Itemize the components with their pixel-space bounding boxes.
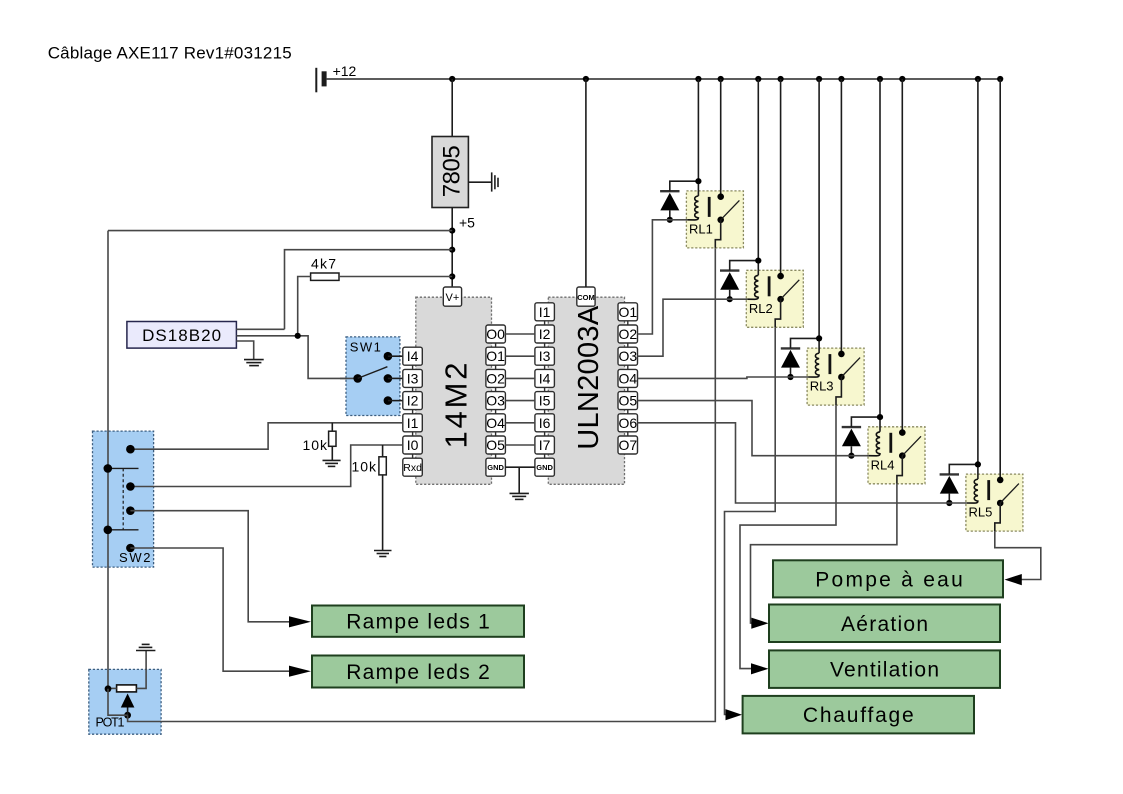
svg-text:I1: I1 xyxy=(539,304,551,320)
wire +5 left rail vertical (to SW2 and POT1) xyxy=(107,231,109,689)
diode D3 (flyback) xyxy=(781,338,819,377)
wire ULN O5 to RL4 coil xyxy=(638,401,870,456)
SW2 mechanical link (dashed) xyxy=(122,468,124,529)
RL5 coil xyxy=(967,479,978,503)
RL2 coil xyxy=(747,275,758,299)
14M2 output pins O0-O5 xyxy=(486,325,506,458)
svg-text:I4: I4 xyxy=(407,348,419,364)
wire +12 rail to COM xyxy=(585,79,587,287)
RL1 switch lever and contacts xyxy=(717,193,739,223)
svg-text:SW1: SW1 xyxy=(350,340,381,355)
svg-text:I2: I2 xyxy=(407,393,419,409)
svg-text:O4: O4 xyxy=(618,370,637,386)
POT1 terminal junction dots xyxy=(105,685,131,718)
RL3 switch lever and contacts xyxy=(838,351,860,381)
POT1 track body xyxy=(117,685,137,692)
load box Aeration xyxy=(769,605,1000,643)
load box Rampe leds 2 xyxy=(312,656,524,688)
svg-text:I3: I3 xyxy=(539,348,551,364)
svg-text:O4: O4 xyxy=(486,415,505,431)
svg-text:COM: COM xyxy=(577,293,595,302)
wire DS18B20 Vdd pin to +5 xyxy=(236,328,284,330)
relay RL5 xyxy=(966,474,1023,531)
wire DS18B20 gnd pin xyxy=(236,341,253,360)
wire +12 rail to RL1 switch contact xyxy=(720,79,722,197)
wire POT1 wiper long run to RL1 common xyxy=(128,248,716,722)
wire RL4 common to Aeration xyxy=(751,484,897,623)
wire +12 rail to RL2 switch contact xyxy=(780,79,782,276)
wire SW1 to I4 xyxy=(388,355,403,357)
RL3 core bar xyxy=(829,354,832,374)
RL5 core bar xyxy=(987,480,990,500)
svg-text:O1: O1 xyxy=(618,304,637,320)
svg-text:10k: 10k xyxy=(303,437,329,453)
ULN2003A pin COM xyxy=(577,287,595,306)
svg-text:GND: GND xyxy=(536,463,553,472)
wire DS18B20 data pin to SW1 common xyxy=(236,336,357,379)
darlington driver ULN2003A U2 xyxy=(548,297,624,484)
ground symbol below ICs xyxy=(510,493,529,499)
wire +12 rail to RL1 coil xyxy=(697,79,699,196)
wire +12 rail to RL3 coil xyxy=(818,79,820,353)
ULN2003A output pins O1-O7 xyxy=(618,303,638,454)
node +5 junction dots xyxy=(449,228,455,280)
SW1 contact dots xyxy=(353,352,392,405)
wire +12 rail to RL3 switch contact xyxy=(840,79,842,354)
svg-text:I0: I0 xyxy=(407,437,419,453)
RL4 core bar xyxy=(889,433,892,453)
junction dots on +12 rail xyxy=(449,76,1003,82)
svg-text:7805: 7805 xyxy=(439,145,466,197)
load box Chauffage xyxy=(743,696,974,734)
ULN2003A input pins I1-I7 xyxy=(535,303,555,458)
switch SW2 (dual selector) xyxy=(93,431,154,567)
SW1 lever xyxy=(358,367,388,379)
svg-text:O2: O2 xyxy=(486,370,505,386)
diode D4 (flyback) xyxy=(842,417,880,456)
arrowhead into Rampe leds 2 xyxy=(289,666,311,677)
svg-text:O5: O5 xyxy=(618,393,637,409)
svg-text:DS18B20: DS18B20 xyxy=(142,326,221,345)
RL2 switch lever and contacts xyxy=(777,273,799,303)
svg-text:RL3: RL3 xyxy=(810,379,834,394)
wire SW2 throw1 to 14M2 I1 xyxy=(130,423,402,449)
RL3 coil xyxy=(808,353,819,377)
svg-text:RL4: RL4 xyxy=(871,457,895,472)
wire ULN O4 to RL3 coil xyxy=(638,377,809,378)
svg-text:+12: +12 xyxy=(333,63,357,79)
svg-text:I6: I6 xyxy=(539,415,551,431)
svg-text:Pompe à eau: Pompe à eau xyxy=(815,568,963,591)
wire SW2 throw4 to Rampe leds 2 xyxy=(130,548,289,671)
RL4 switch lever and contacts xyxy=(899,429,921,459)
SW2 pole levers xyxy=(108,468,139,529)
wire +12 rail to RL2 coil xyxy=(757,79,759,275)
svg-text:O5: O5 xyxy=(486,437,505,453)
svg-text:Rampe leds 1: Rampe leds 1 xyxy=(346,611,490,634)
load box Ventilation xyxy=(769,650,1000,688)
svg-text:Chauffage: Chauffage xyxy=(803,704,914,727)
svg-text:POT1: POT1 xyxy=(96,716,125,730)
wire RL3 common to Ventilation xyxy=(740,405,836,668)
arrowhead into Pompe a eau (pointing left) xyxy=(1005,574,1022,585)
svg-text:RL5: RL5 xyxy=(969,505,993,520)
wire +12 rail to RL5 switch contact xyxy=(999,79,1001,480)
svg-text:Rxd: Rxd xyxy=(403,462,422,474)
svg-text:I7: I7 xyxy=(539,437,551,453)
wire +5 rail into POT1 left terminal xyxy=(108,687,117,689)
wire +5 rail through SW2 xyxy=(107,431,109,567)
svg-text:I5: I5 xyxy=(539,393,551,409)
svg-text:GND: GND xyxy=(487,463,504,472)
RL1 core bar xyxy=(708,197,711,217)
potentiometer POT1 xyxy=(89,669,161,734)
load box Rampe leds 1 xyxy=(312,606,524,637)
RL1 switch common wire xyxy=(715,220,720,248)
wire ULN O3 to RL2 coil xyxy=(638,299,748,356)
svg-text:Aération: Aération xyxy=(841,613,928,636)
svg-text:O1: O1 xyxy=(486,348,505,364)
RL1 junction dots xyxy=(667,178,702,223)
wire GND pins to ground xyxy=(505,467,535,493)
ground symbol above POT1 xyxy=(136,644,155,650)
RL3 junction dots xyxy=(787,335,822,380)
svg-text:Ventilation: Ventilation xyxy=(830,659,939,682)
RL2 switch common wire xyxy=(775,299,780,327)
RL5 switch lever and contacts xyxy=(997,477,1019,507)
+12 rail wire xyxy=(327,78,1002,80)
wire SW1 to I2 xyxy=(388,400,403,402)
wire SW1 to I3 xyxy=(388,377,403,379)
arrowhead into Ventilation xyxy=(751,663,769,674)
svg-text:I3: I3 xyxy=(407,370,419,386)
RL2 junction dots xyxy=(727,258,762,303)
RL4 switch common wire xyxy=(897,456,902,484)
ground symbol at DS18B20 xyxy=(244,360,264,366)
diode D2 (flyback) xyxy=(720,261,758,300)
relay RL3 xyxy=(807,348,864,405)
svg-text:O6: O6 xyxy=(618,415,637,431)
RL4 coil xyxy=(869,432,880,456)
svg-text:O3: O3 xyxy=(618,348,637,364)
wire RL5 common to Pompe a eau xyxy=(995,531,1041,579)
PICAXE 14M2 IC U1 xyxy=(416,297,492,484)
relay RL2 xyxy=(746,270,803,327)
battery symbol +12 supply xyxy=(316,68,324,93)
wire SW2 throw2 to 14M2 I0 xyxy=(130,445,402,487)
svg-text:I4: I4 xyxy=(539,370,551,386)
svg-text:+5: +5 xyxy=(459,214,475,230)
svg-text:I2: I2 xyxy=(539,326,551,342)
wire +5 to DS18B20 Vdd xyxy=(285,250,453,330)
14M2 input pins I4 I3 I2 I1 I0 xyxy=(403,347,423,458)
arrowhead into Rampe leds 1 xyxy=(289,616,311,627)
wire POT1 right terminal to ground xyxy=(136,651,146,689)
arrowhead into Aeration xyxy=(751,618,768,629)
svg-text:O2: O2 xyxy=(618,326,637,342)
temperature sensor DS18B20 xyxy=(127,322,236,349)
svg-text:I1: I1 xyxy=(407,415,419,431)
wires 14M2 outputs to ULN inputs xyxy=(505,334,535,445)
wire +12 rail to RL4 coil xyxy=(879,79,881,432)
14M2 pin V+ xyxy=(443,287,461,306)
wire +5 rail into POT1 (over box) xyxy=(107,669,109,689)
POT1 wiper arrow xyxy=(121,694,135,708)
wire SW2 throw3 to Rampe leds 1 xyxy=(130,511,289,622)
RL2 core bar xyxy=(768,276,771,296)
wire DS18B20 data into SW1 (over box) xyxy=(340,377,358,379)
svg-text:Câblage AXE117 Rev1#031215: Câblage AXE117 Rev1#031215 xyxy=(48,44,292,63)
resistor 4k7 pullup xyxy=(311,256,339,281)
ground symbol at 10k I0 xyxy=(374,551,392,557)
RL3 switch common wire xyxy=(836,377,841,405)
svg-text:10k: 10k xyxy=(352,459,378,475)
svg-text:ULN2003A: ULN2003A xyxy=(573,305,605,450)
diode D1 (flyback) xyxy=(660,181,698,220)
wire POT1 left terminal to wiper xyxy=(108,689,128,715)
resistor 10k (I0 pulldown) xyxy=(352,445,387,551)
svg-text:RL2: RL2 xyxy=(749,301,773,316)
svg-text:O0: O0 xyxy=(486,326,505,342)
switch SW1 (3-position selector) xyxy=(346,337,400,416)
svg-text:SW2: SW2 xyxy=(119,550,151,565)
wire +5 horizontal to left rail xyxy=(108,230,452,232)
ground symbol at 10k I1 xyxy=(323,460,341,466)
wire ULN O6 to RL5 coil xyxy=(638,423,967,503)
resistor 10k (I1 pulldown) xyxy=(303,423,337,461)
svg-text:V+: V+ xyxy=(446,292,460,304)
relay RL4 xyxy=(868,427,925,484)
svg-text:RL1: RL1 xyxy=(689,221,713,236)
svg-text:O3: O3 xyxy=(486,393,505,409)
RL5 junction dots xyxy=(946,461,981,506)
junction dot data/4k7 xyxy=(295,333,301,339)
svg-text:14M2: 14M2 xyxy=(439,363,474,449)
ground symbol at 7805 xyxy=(468,172,498,191)
diode D5 (flyback) xyxy=(940,464,978,503)
wire 4k7 right lead to +5 xyxy=(339,276,452,278)
svg-text:Rampe leds 2: Rampe leds 2 xyxy=(346,661,490,684)
svg-text:4k7: 4k7 xyxy=(311,256,336,272)
ULN2003A pin GND xyxy=(535,458,555,476)
wire RL2 common to Chauffage xyxy=(725,327,776,714)
wire +12 rail to 7805 input xyxy=(451,79,453,137)
SW2 contact and pole dots xyxy=(104,445,135,552)
wire +12 rail to RL4 switch contact xyxy=(901,79,903,433)
svg-text:O7: O7 xyxy=(618,437,637,453)
RL1 coil xyxy=(687,196,698,220)
wire 7805 output to +5 node xyxy=(451,208,453,288)
wire ULN O2 to RL1 coil xyxy=(638,220,688,334)
RL5 switch common wire xyxy=(995,503,1000,531)
14M2 pin GND xyxy=(486,458,506,476)
relay RL1 xyxy=(686,191,743,248)
wire +12 rail to RL5 coil xyxy=(977,79,979,479)
wire 4k7 left lead down to data net xyxy=(298,277,311,336)
load box Pompe a eau xyxy=(773,560,1003,597)
arrowhead into Chauffage xyxy=(726,709,743,720)
voltage regulator 7805 xyxy=(432,137,468,208)
14M2 pin Rxd xyxy=(403,458,423,476)
RL4 junction dots xyxy=(848,414,883,459)
